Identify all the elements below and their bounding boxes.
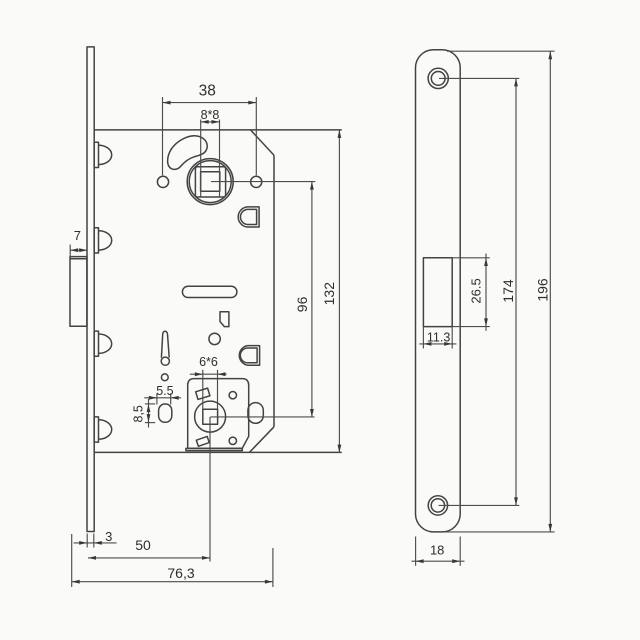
pennant-shaped cutout — [220, 312, 229, 327]
magnet housing box on faceplate left — [70, 257, 87, 327]
svg-text:96: 96 — [294, 296, 310, 312]
svg-text:7: 7 — [74, 228, 81, 243]
handle screw hole right — [251, 176, 262, 187]
D-shaped hole upper (outer) — [238, 207, 259, 227]
spindle inner square 8x8 — [201, 172, 220, 191]
dimension 7 — [70, 228, 87, 257]
wc follower circle — [195, 401, 226, 432]
follower plate base flange — [186, 448, 242, 450]
plate rivet hole top — [229, 392, 236, 399]
dimension 5.5 — [144, 384, 181, 404]
latch bump 1 on faceplate — [94, 142, 112, 167]
dimension 26.5 — [453, 254, 490, 331]
faceplate front view plate — [416, 50, 461, 532]
dimension 8*8 — [201, 108, 220, 197]
dimension 3 — [74, 529, 117, 548]
center hole in body — [209, 333, 220, 344]
dimension 50 — [88, 417, 210, 562]
horizontal oval slot mid body — [182, 286, 237, 297]
svg-text:5.5: 5.5 — [156, 384, 173, 398]
handle screw hole left — [157, 176, 168, 187]
lock body outline with chamfered corners — [94, 130, 342, 453]
dimension 18 — [412, 537, 465, 566]
svg-text:132: 132 — [321, 282, 337, 306]
svg-text:76,3: 76,3 — [167, 565, 194, 581]
svg-text:50: 50 — [135, 537, 151, 553]
svg-text:18: 18 — [430, 543, 444, 558]
dimension 8,5 — [131, 399, 155, 428]
latch cutout rectangle — [423, 258, 452, 327]
dimension 38 — [163, 82, 257, 175]
svg-text:8*8: 8*8 — [201, 108, 220, 122]
dimension 6*6 — [190, 355, 227, 409]
tilted stop rectangle lower — [196, 436, 209, 446]
svg-text:196: 196 — [534, 278, 550, 302]
svg-text:6*6: 6*6 — [199, 355, 218, 369]
dimension 76,3 — [72, 534, 273, 587]
oval slot left of follower — [159, 404, 172, 422]
small hole below teardrop — [161, 374, 168, 381]
svg-text:11.3: 11.3 — [427, 330, 450, 344]
wc follower square 6x6 — [203, 409, 218, 424]
spindle outer square — [195, 167, 225, 197]
latch capsule at body right — [248, 403, 263, 424]
svg-text:174: 174 — [500, 279, 516, 303]
latch bump 3 on faceplate — [94, 331, 111, 356]
dimension 196 — [443, 51, 555, 532]
tilted stop rectangle upper — [196, 388, 210, 399]
faceplate side view (edge strip) — [87, 47, 94, 532]
dimension 96 — [210, 182, 315, 417]
spindle hub circles — [187, 159, 233, 205]
bottom screw hole — [428, 496, 447, 515]
dimension 11.3 — [419, 327, 456, 349]
top screw hole — [428, 68, 448, 88]
kidney-shaped arc slot — [168, 136, 208, 170]
teardrop pin — [161, 331, 169, 365]
latch bump 4 on faceplate — [94, 417, 112, 442]
dimension 174 — [439, 78, 520, 505]
D-shaped hole lower (outer) — [239, 346, 259, 366]
svg-text:8,5: 8,5 — [131, 405, 145, 422]
D-shaped hole upper (inner) — [240, 209, 256, 224]
plate rivet hole bottom — [229, 437, 236, 444]
svg-text:38: 38 — [199, 82, 216, 99]
dimension 132 — [321, 130, 341, 453]
svg-text:26.5: 26.5 — [469, 278, 484, 303]
svg-text:3: 3 — [105, 529, 112, 544]
latch bump 2 on faceplate — [94, 228, 112, 253]
D-shaped hole lower (inner) — [240, 348, 257, 363]
wc follower plate — [188, 379, 249, 449]
